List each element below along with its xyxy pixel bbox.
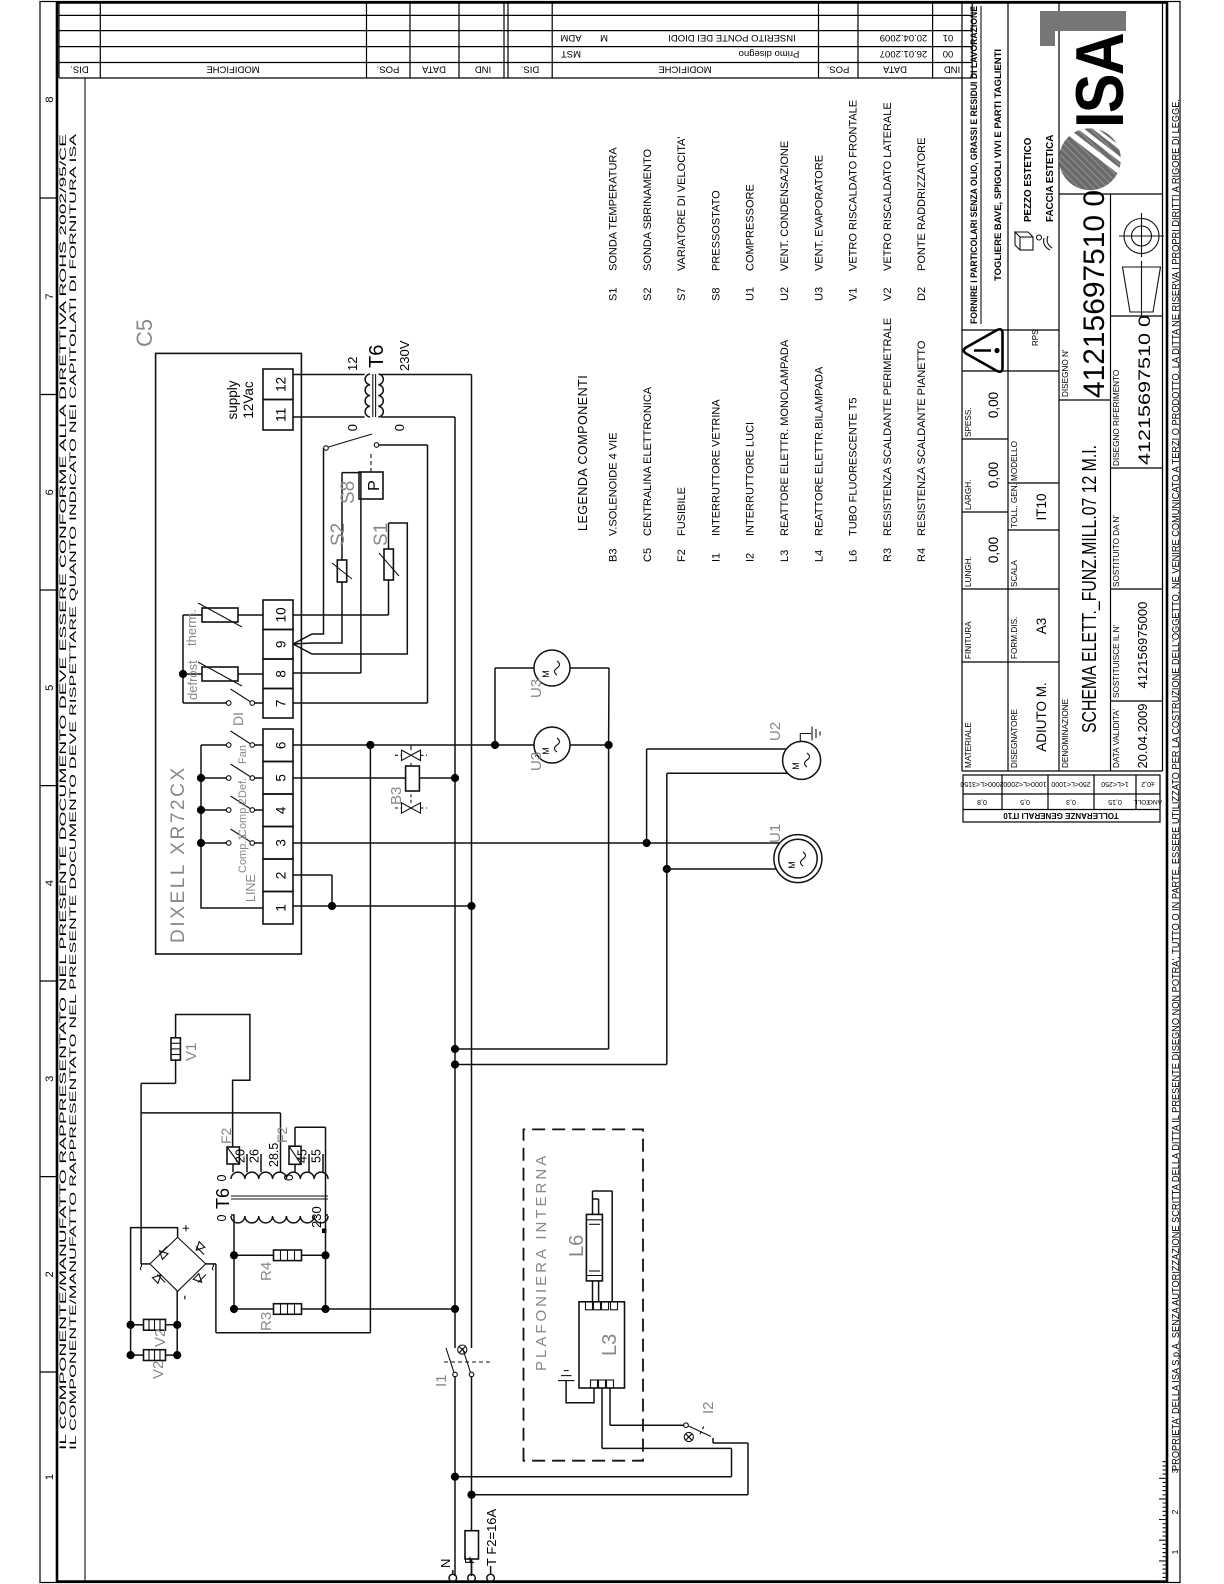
svg-text:L6: L6 — [566, 1235, 588, 1257]
svg-text:R4: R4 — [916, 548, 928, 562]
svg-text:VENT. CONDENSAZIONE: VENT. CONDENSAZIONE — [779, 141, 791, 271]
svg-text:1: 1 — [44, 1474, 56, 1480]
svg-text:8: 8 — [274, 670, 289, 678]
svg-text:T6: T6 — [213, 1188, 233, 1209]
T6 heaters 230V winding — [231, 1216, 328, 1223]
U1 U2 return — [667, 772, 788, 774]
svg-text:U2: U2 — [767, 722, 784, 741]
svg-text:R3: R3 — [258, 1312, 275, 1331]
svg-text:COMPRESSORE: COMPRESSORE — [745, 184, 757, 271]
svg-text:D2: D2 — [916, 287, 928, 301]
svg-text:4: 4 — [274, 806, 289, 814]
svg-text:2: 2 — [44, 1271, 56, 1277]
svg-text:M: M — [791, 762, 801, 770]
svg-text:M: M — [787, 861, 797, 869]
revision table grid — [59, 3, 972, 79]
svg-text:SOSTITUISCE IL N': SOSTITUISCE IL N' — [1112, 624, 1121, 698]
first-angle projection symbol trapezoid — [1123, 267, 1161, 312]
svg-text:S2: S2 — [328, 523, 349, 546]
U2 branch — [646, 749, 648, 843]
svg-text:DENOMINAZIONE: DENOMINAZIONE — [1061, 698, 1070, 768]
svg-text:CENTRALINA ELETTRONICA: CENTRALINA ELETTRONICA — [642, 386, 654, 536]
pressure switch S8 — [324, 446, 329, 451]
svg-text:DISEGNATORE: DISEGNATORE — [1010, 709, 1019, 768]
rail A (winding top to R3 R4) — [231, 1215, 234, 1309]
svg-text:DATA VALIDITA': DATA VALIDITA' — [1112, 708, 1121, 768]
L3 to L6 wires — [592, 1281, 594, 1302]
bridge - to V2 bottom rail — [176, 1291, 178, 1356]
svg-text:3: 3 — [1170, 1468, 1180, 1473]
svg-text:20.04.2009: 20.04.2009 — [880, 32, 928, 43]
svg-text:FORNIRE I PARTICOLARI SENZA OL: FORNIRE I PARTICOLARI SENZA OLIO, GRASSI… — [969, 5, 980, 324]
faccia estetica icon — [1037, 235, 1053, 250]
fluorescent tube L6 — [586, 1214, 602, 1281]
svg-text:Comp.1: Comp.1 — [237, 834, 249, 873]
svg-text:ADM: ADM — [560, 32, 581, 43]
bridge diode bottom-right — [196, 1242, 205, 1255]
svg-text:01: 01 — [943, 32, 954, 43]
svg-text:~: ~ — [205, 1263, 221, 1271]
svg-text:S8: S8 — [338, 481, 359, 504]
svg-text:RPS: RPS — [1031, 330, 1040, 346]
svg-text:26.01.2007: 26.01.2007 — [880, 48, 928, 59]
T6 primary to mains rails — [381, 416, 455, 418]
svg-text:0: 0 — [215, 1174, 229, 1181]
svg-text:+: + — [178, 1224, 193, 1232]
ballast L3 — [579, 1302, 625, 1388]
svg-text:LUNGH.: LUNGH. — [964, 556, 973, 587]
svg-text:V2: V2 — [150, 1361, 167, 1379]
terminal strip 11-12 — [263, 400, 293, 431]
svg-text:0: 0 — [392, 424, 407, 431]
drawing frame left edge — [57, 1580, 1167, 1583]
svg-text:0: 0 — [282, 1174, 296, 1181]
svg-text:FINITURA: FINITURA — [964, 621, 973, 659]
svg-text:IND: IND — [944, 64, 961, 75]
svg-text:8: 8 — [44, 96, 56, 102]
svg-text:0,00: 0,00 — [986, 462, 1001, 488]
L3 terminals left — [591, 1380, 598, 1388]
svg-text:MATERIALE: MATERIALE — [964, 722, 973, 768]
svg-text:F2: F2 — [274, 1126, 290, 1143]
svg-text:L3: L3 — [779, 550, 791, 562]
transformer T6 (supply) primary winding — [365, 374, 370, 417]
svg-text:defrost: defrost — [185, 660, 200, 700]
svg-text:T6: T6 — [366, 345, 388, 368]
svg-text:U3: U3 — [528, 679, 545, 698]
svg-text:0: 0 — [215, 1214, 229, 1221]
svg-text:POS.: POS. — [827, 64, 850, 75]
svg-text:DISEGNO N': DISEGNO N' — [1061, 349, 1070, 397]
svg-text:C5: C5 — [642, 548, 654, 562]
svg-text:IND: IND — [475, 64, 492, 75]
svg-text:PRESSOSTATO: PRESSOSTATO — [710, 190, 722, 271]
bridge rectifier D2 — [150, 1237, 206, 1291]
svg-text:0,00: 0,00 — [986, 392, 1001, 418]
svg-text:L3: L3 — [599, 1334, 621, 1356]
svg-text:0,3: 0,3 — [1066, 798, 1076, 805]
svg-text:12: 12 — [274, 377, 289, 392]
svg-text:SCHEMA ELETT._FUNZ.MILL.07 12: SCHEMA ELETT._FUNZ.MILL.07 12 M.I. — [1078, 445, 1101, 733]
therm sensor — [202, 608, 238, 622]
supply terminals N F T — [449, 1574, 457, 1582]
svg-text:12Vac: 12Vac — [241, 381, 256, 419]
rail B (winding bottom) — [326, 1127, 329, 1309]
svg-text:TOLLERANZE GENERALI IT10: TOLLERANZE GENERALI IT10 — [1003, 811, 1119, 820]
svg-text:0,00: 0,00 — [986, 537, 1001, 563]
svg-text:SCALA: SCALA — [1010, 560, 1019, 587]
svg-text:MST: MST — [561, 48, 581, 59]
heater R3 — [274, 1304, 302, 1315]
U2 earth — [800, 734, 811, 742]
DI switch (term 7) — [255, 702, 263, 704]
L3 terminals right — [586, 1302, 593, 1310]
projection symbol circles — [1132, 226, 1152, 246]
tolerances table grid — [963, 775, 1160, 822]
wires terminals 11,12 to T6 — [293, 416, 365, 418]
heater circuit drop to N rail — [326, 1308, 456, 1310]
LINE bus inside C5 — [201, 745, 263, 908]
plafoniera interna dashed enclosure — [524, 1129, 644, 1460]
svg-text:20: 20 — [234, 1149, 248, 1163]
U3 wiring — [494, 668, 496, 745]
svg-text:F: F — [462, 1556, 477, 1564]
svg-text:S2: S2 — [642, 288, 654, 301]
svg-text:0,5: 0,5 — [1020, 798, 1030, 805]
svg-text:MODELLO: MODELLO — [1010, 441, 1019, 481]
svg-text:28.5: 28.5 — [267, 1143, 281, 1167]
C5 controller box — [156, 353, 302, 954]
svg-text:C5: C5 — [132, 319, 157, 347]
svg-text:DISEGNO RIFERIMENTO: DISEGNO RIFERIMENTO — [1112, 370, 1121, 466]
bridge diode top-right — [159, 1247, 168, 1260]
evaporator fan motor U3 (right) — [534, 650, 570, 686]
svg-text:2000<L<3150: 2000<L<3150 — [960, 780, 1003, 787]
svg-text:412156975000: 412156975000 — [1135, 602, 1150, 689]
zone reference band ticks (top) — [40, 1371, 57, 1373]
svg-text:S1: S1 — [608, 288, 620, 301]
svg-text:TUBO FLUORESCENTE T5: TUBO FLUORESCENTE T5 — [848, 397, 860, 536]
glass heater V2 (upper) — [144, 1319, 166, 1330]
svg-text:S8: S8 — [710, 288, 722, 301]
bridge AC node bus — [140, 1083, 142, 1264]
svg-text:DI: DI — [230, 712, 246, 726]
relay switch Comp.2 — [255, 809, 263, 811]
V1 wiring left — [175, 1060, 177, 1083]
svg-text:DATA: DATA — [421, 64, 446, 75]
supply fuse T F2=16A — [465, 1531, 479, 1559]
relay switch Def. — [255, 777, 263, 779]
svg-text:N: N — [438, 1559, 453, 1568]
svg-text:LARGH.: LARGH. — [964, 480, 973, 510]
svg-text:LINE: LINE — [244, 874, 258, 902]
svg-text:V1: V1 — [183, 1043, 200, 1061]
svg-text:230V: 230V — [397, 340, 412, 371]
svg-text:2: 2 — [1170, 1509, 1180, 1514]
svg-text:9: 9 — [274, 641, 289, 649]
svg-text:DIS.: DIS. — [70, 64, 88, 75]
svg-text:U1: U1 — [767, 824, 784, 843]
svg-text:V.SOLENOIDE 4 VIE: V.SOLENOIDE 4 VIE — [608, 432, 620, 536]
svg-text:250<L<1000: 250<L<1000 — [1051, 780, 1090, 787]
warning triangle — [964, 329, 1003, 371]
svg-text:VETRO RISCALDATO LATERALE: VETRO RISCALDATO LATERALE — [882, 102, 894, 271]
svg-text:MODIFICHE: MODIFICHE — [658, 64, 711, 75]
svg-text:SONDA TEMPERATURA: SONDA TEMPERATURA — [608, 147, 620, 271]
title block grid — [962, 3, 1163, 772]
winding taps — [246, 1154, 248, 1172]
fuse F2 (V1 circuit) — [227, 1147, 239, 1164]
svg-text:5: 5 — [274, 774, 289, 782]
probe S1 — [384, 549, 393, 580]
svg-text:U3: U3 — [813, 287, 825, 301]
svg-text:INTERRUTTORE LUCI: INTERRUTTORE LUCI — [745, 422, 757, 536]
svg-text:FORM.DIS.: FORM.DIS. — [1010, 617, 1019, 659]
glass heater V2 (lower) — [144, 1350, 166, 1361]
svg-text:5: 5 — [44, 685, 56, 691]
svg-text:V2: V2 — [152, 1329, 169, 1347]
svg-text:DATA: DATA — [882, 64, 907, 75]
svg-text:U2: U2 — [779, 287, 791, 301]
svg-text:IL COMPONENTE/MANUFATTO RAPPRE: IL COMPONENTE/MANUFATTO RAPPRESENTATO NE… — [68, 132, 78, 1450]
svg-text:0,8: 0,8 — [977, 798, 987, 805]
svg-text:PLAFONIERA INTERNA: PLAFONIERA INTERNA — [533, 1153, 550, 1371]
svg-text:Fan: Fan — [237, 745, 249, 764]
svg-text:TOGLIERE BAVE, SPIGOLI VIVI E: TOGLIERE BAVE, SPIGOLI VIVI E PARTI TAGL… — [993, 49, 1004, 281]
wire terminals 1-2 to F rail — [293, 905, 472, 907]
T6 heaters core — [231, 1198, 328, 1200]
svg-text:3: 3 — [274, 839, 289, 847]
tap feed to bridge node — [141, 1112, 280, 1114]
svg-text:SPESS.: SPESS. — [964, 407, 973, 437]
svg-text:SONDA SBRINAMENTO: SONDA SBRINAMENTO — [642, 149, 654, 271]
warning exclamation — [974, 349, 991, 352]
transformer T6 (heaters) tapped winding — [231, 1172, 328, 1179]
svg-text:M: M — [600, 32, 608, 43]
svg-text:F2: F2 — [218, 1127, 234, 1144]
svg-text:I2: I2 — [700, 1401, 717, 1414]
pezzo estetico cube icon — [1020, 237, 1033, 250]
transformer T6 secondary winding — [378, 374, 383, 417]
terminal 9 fan-out wires — [293, 448, 407, 654]
svg-text:Def.: Def. — [237, 778, 249, 798]
fuse F2 (bridge circuit) — [289, 1146, 301, 1164]
svg-text:230: 230 — [309, 1206, 324, 1228]
svg-text:F2: F2 — [676, 549, 688, 562]
svg-text:±0,2: ±0,2 — [1141, 780, 1155, 787]
svg-text:20.04.2009: 20.04.2009 — [1135, 703, 1150, 768]
svg-text:6: 6 — [44, 489, 56, 495]
svg-text:TOLL. GEN.: TOLL. GEN. — [1010, 483, 1019, 528]
relay switch Comp.1 — [255, 842, 263, 844]
svg-text:PROPRIETA' DELLA ISA S.p.A. SE: PROPRIETA' DELLA ISA S.p.A. SENZA AUTORI… — [1170, 99, 1182, 1471]
terminal 7 wire to S8 — [293, 702, 428, 704]
compressor U1 — [774, 835, 822, 883]
svg-text:S7: S7 — [676, 288, 688, 301]
condenser fan U2 — [783, 741, 821, 779]
svg-text:LEGENDA COMPONENTI: LEGENDA COMPONENTI — [576, 375, 590, 531]
S8 P box — [359, 472, 383, 499]
svg-text:-: - — [176, 1295, 193, 1300]
svg-text:INTERRUTTORE VETRINA: INTERRUTTORE VETRINA — [710, 399, 722, 536]
svg-text:1<L<250: 1<L<250 — [1101, 780, 1129, 787]
ISA logo bracket bars — [1040, 11, 1055, 46]
svg-text:ANG.: ANG. — [1146, 798, 1162, 805]
svg-text:MODIFICHE: MODIFICHE — [206, 64, 259, 75]
svg-text:V2: V2 — [882, 288, 894, 301]
svg-text:0: 0 — [345, 424, 360, 431]
svg-text:4: 4 — [44, 880, 56, 886]
svg-text:7: 7 — [44, 293, 56, 299]
svg-text:7: 7 — [274, 700, 289, 708]
svg-text:11: 11 — [274, 408, 289, 422]
evaporator fan motor U3 (left) — [534, 727, 570, 763]
svg-text:B3: B3 — [608, 549, 620, 562]
relay switch Fan — [255, 744, 263, 746]
transformer T6 core — [372, 374, 374, 417]
svg-text:RESISTENZA SCALDANTE PIANETTO: RESISTENZA SCALDANTE PIANETTO — [916, 340, 928, 536]
svg-text:41215697510 0: 41215697510 0 — [1135, 315, 1154, 465]
svg-text:DIXELL XR72CX: DIXELL XR72CX — [168, 765, 189, 943]
V1 wiring right to fuse F2 — [176, 1015, 250, 1148]
bridge diode top-left — [152, 1275, 165, 1284]
probe S2 — [337, 560, 346, 582]
svg-text:IL COMPONENTE/MANUFATTO RAPPRE: IL COMPONENTE/MANUFATTO RAPPRESENTATO NE… — [58, 134, 68, 1450]
svg-text:6: 6 — [274, 742, 289, 750]
mains rail N (y455) — [454, 1376, 456, 1576]
svg-text:10: 10 — [274, 607, 289, 622]
svg-text:Primo disegno: Primo disegno — [739, 48, 800, 59]
light switch I2 feed — [609, 1388, 611, 1425]
bridge diode bottom-left — [193, 1274, 206, 1283]
svg-text:55: 55 — [310, 1149, 324, 1163]
lamp neutral wire — [455, 1476, 732, 1478]
svg-text:~: ~ — [133, 1263, 149, 1271]
svg-text:B3: B3 — [388, 787, 405, 805]
svg-text:1000<L<2000: 1000<L<2000 — [1003, 780, 1046, 787]
svg-text:PONTE RADDRIZZATORE: PONTE RADDRIZZATORE — [916, 138, 928, 271]
svg-text:FUSIBILE: FUSIBILE — [676, 487, 688, 536]
svg-text:INSERITO PONTE DEI DIODI: INSERITO PONTE DEI DIODI — [668, 32, 796, 43]
svg-text:VETRO RISCALDATO FRONTALE: VETRO RISCALDATO FRONTALE — [848, 100, 860, 271]
svg-text:REATTORE ELETTR.BILAMPADA: REATTORE ELETTR.BILAMPADA — [813, 366, 825, 536]
svg-text:R3: R3 — [882, 548, 894, 562]
svg-text:P: P — [366, 480, 383, 491]
terminal strip 1-6 — [263, 892, 293, 925]
svg-text:supply: supply — [225, 380, 240, 419]
svg-text:REATTORE ELETTR. MONOLAMPADA: REATTORE ELETTR. MONOLAMPADA — [779, 339, 791, 536]
svg-text:PEZZO ESTETICO: PEZZO ESTETICO — [1023, 137, 1034, 222]
svg-text:VARIATORE DI VELOCITA': VARIATORE DI VELOCITA' — [676, 136, 688, 271]
drawing frame right edge — [57, 1, 1167, 4]
glass heater V1 — [171, 1038, 180, 1060]
svg-text:0,15: 0,15 — [1108, 798, 1122, 805]
svg-text:26: 26 — [248, 1149, 262, 1163]
evaporator fan bus to bridge — [369, 745, 371, 1333]
heater R4 — [274, 1250, 302, 1261]
main switch I1 — [453, 1372, 458, 1377]
svg-text:1: 1 — [274, 904, 289, 912]
fan wire (term 6) — [293, 744, 534, 746]
I2 to fuse rail — [712, 1438, 714, 1443]
svg-text:therm.: therm. — [184, 609, 199, 646]
svg-text:ISA: ISA — [1062, 33, 1138, 128]
svg-text:45: 45 — [296, 1149, 310, 1163]
svg-text:3: 3 — [44, 1076, 56, 1082]
svg-text:Comp.2: Comp.2 — [237, 798, 249, 837]
svg-text:VENT. EVAPORATORE: VENT. EVAPORATORE — [813, 155, 825, 271]
svg-text:I2: I2 — [745, 553, 757, 562]
svg-text:I1: I1 — [710, 553, 722, 562]
svg-text:DIS.: DIS. — [521, 64, 539, 75]
B3 solenoid in series with term 5 — [293, 777, 406, 779]
svg-text:41215697510 0: 41215697510 0 — [1078, 190, 1111, 398]
svg-text:1: 1 — [1170, 1549, 1180, 1554]
svg-text:S1: S1 — [371, 523, 392, 546]
svg-text:POS.: POS. — [377, 64, 400, 75]
svg-text:00: 00 — [943, 48, 954, 59]
svg-text:U1: U1 — [745, 287, 757, 301]
mains rail F (y471.5) — [471, 1559, 473, 1576]
B3 valve bowtie left — [402, 803, 421, 813]
svg-text:L6: L6 — [848, 550, 860, 562]
terminal strip 7-10 — [263, 689, 293, 719]
graduated ruler (bottom-left corner) — [1159, 1462, 1167, 1582]
revision table double border line — [503, 3, 505, 79]
svg-text:12: 12 — [345, 357, 360, 371]
svg-text:T F2=16A: T F2=16A — [484, 1508, 499, 1566]
inner drawing border line under margin text — [84, 78, 86, 1582]
compressor wire (term 3) — [293, 842, 780, 844]
svg-text:M: M — [541, 670, 551, 678]
svg-text:SOSTITUITO DA N': SOSTITUITO DA N' — [1112, 515, 1121, 587]
svg-text:A3: A3 — [1034, 618, 1049, 635]
drawing frame top edge — [56, 2, 59, 1583]
svg-text:R4: R4 — [258, 1262, 275, 1281]
B3 valve bowtie right — [402, 750, 421, 760]
L3 earth — [566, 1381, 594, 1403]
svg-text:I1: I1 — [433, 1374, 450, 1387]
svg-text:ADIUTO M.: ADIUTO M. — [1034, 682, 1049, 752]
svg-text:L4: L4 — [813, 550, 825, 562]
bridge + to V2 top rail — [131, 1228, 178, 1357]
probe bus — [182, 615, 184, 703]
svg-text:2: 2 — [274, 872, 289, 880]
svg-text:V1: V1 — [848, 288, 860, 301]
defrost sensor — [202, 667, 238, 681]
drawing frame bottom edge — [1166, 2, 1169, 1583]
svg-text:RESISTENZA SCALDANTE PERIMETRA: RESISTENZA SCALDANTE PERIMETRALE — [882, 318, 894, 536]
svg-text:U3: U3 — [528, 752, 545, 771]
svg-text:IT10: IT10 — [1034, 493, 1049, 520]
svg-text:FACCIA ESTETICA: FACCIA ESTETICA — [1045, 135, 1056, 222]
